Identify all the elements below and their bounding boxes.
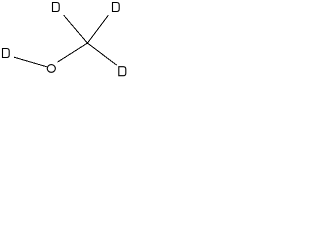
atom label D (top-left) (53, 3, 60, 12)
wire: bond C-D bottom-right (87, 43, 116, 65)
wire: bond C-D top-right (87, 15, 108, 43)
wire: bond C-D top-left (64, 15, 88, 43)
molecule: methanol-d4 (CD3OD) skeletal structure (0, 0, 136, 86)
atom label D (bottom-right) (119, 67, 126, 76)
atom label O (oxygen) (47, 65, 55, 73)
background (0, 0, 136, 86)
atom label D (top-right) (113, 3, 120, 12)
atom label D (far-left) (3, 49, 10, 58)
wire: bond O-D left (14, 57, 47, 67)
wire: bond C-O (58, 43, 88, 62)
